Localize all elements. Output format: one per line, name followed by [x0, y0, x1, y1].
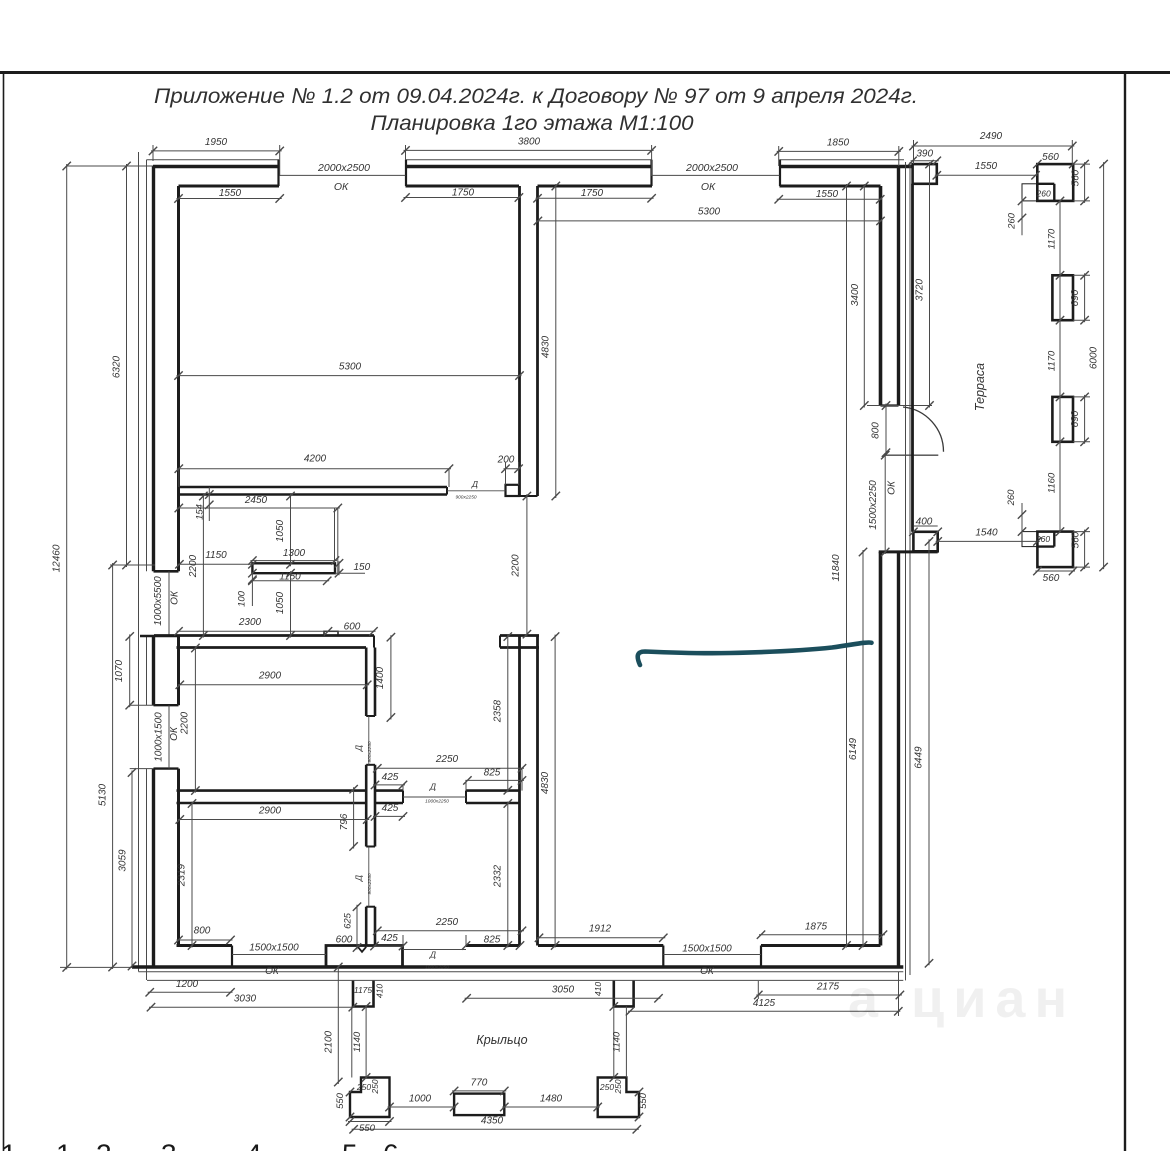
- porch center step: [454, 1094, 504, 1116]
- svg-text:625: 625: [343, 912, 354, 929]
- svg-text:560: 560: [1071, 169, 1082, 186]
- svg-text:3050: 3050: [552, 984, 575, 995]
- dim 560 tr right: [1084, 162, 1086, 203]
- west wall thin contours: [138, 152, 140, 972]
- svg-text:1170: 1170: [1047, 350, 1058, 371]
- svg-text:1550: 1550: [219, 188, 242, 199]
- svg-text:250: 250: [370, 1079, 380, 1094]
- terrace top-right L post: [1037, 164, 1073, 201]
- east door swing arc: [903, 407, 944, 452]
- svg-text:600: 600: [336, 935, 353, 946]
- terrace mid post 2: [1052, 397, 1073, 442]
- svg-text:1170: 1170: [1047, 228, 1058, 249]
- svg-text:6449: 6449: [914, 746, 925, 769]
- dim 425 no1: [373, 784, 405, 786]
- dim 390: [911, 160, 939, 162]
- dim 6320: [126, 164, 128, 567]
- dim 2900 A: [178, 684, 369, 686]
- svg-text:1070: 1070: [114, 659, 125, 682]
- svg-text:1912: 1912: [589, 924, 612, 935]
- svg-text:3720: 3720: [915, 278, 926, 301]
- svg-text:4125: 4125: [753, 998, 776, 1009]
- dim 200: [504, 468, 521, 470]
- svg-text:4200: 4200: [304, 454, 327, 465]
- svg-text:11840: 11840: [831, 554, 842, 582]
- svg-text:1550: 1550: [816, 189, 839, 200]
- svg-text:2450: 2450: [244, 495, 268, 506]
- dim 1750 b: [536, 197, 654, 199]
- west window 1 glass line: [168, 571, 170, 636]
- svg-text:796: 796: [339, 813, 350, 830]
- dim 5300 top: [536, 220, 883, 222]
- terrace mid post 1: [1052, 275, 1073, 320]
- svg-text:1500x2250: 1500x2250: [868, 480, 879, 530]
- hall door stub: [506, 485, 520, 496]
- south wall window caps: [231, 946, 233, 968]
- dim 2300: [177, 630, 376, 632]
- svg-text:Терраса: Терраса: [973, 363, 987, 411]
- svg-text:2332: 2332: [492, 864, 503, 888]
- terrace left edge: [911, 184, 914, 532]
- rooms A/B spine wall: [365, 648, 368, 717]
- svg-text:410: 410: [593, 982, 603, 996]
- dim 1500x2250: [884, 453, 886, 554]
- page frame top line: [0, 71, 1170, 74]
- page frame right line: [1124, 73, 1126, 1151]
- south wall outer face: [132, 965, 903, 968]
- svg-text:Планировка 1го этажа М1:100: Планировка 1го этажа М1:100: [371, 111, 694, 135]
- dim 1550 TR: [777, 198, 883, 200]
- svg-text:1300: 1300: [283, 548, 306, 559]
- svg-text:1140: 1140: [352, 1031, 363, 1052]
- svg-text:ОК: ОК: [170, 590, 181, 605]
- svg-text:425: 425: [381, 933, 398, 944]
- svg-text:ОК: ОК: [334, 181, 349, 193]
- north wall inner face: [179, 185, 280, 188]
- svg-text:5300: 5300: [339, 361, 362, 372]
- dim 690 b: [1084, 395, 1086, 444]
- dim 2200 roomA: [194, 646, 196, 793]
- dim 1200: [148, 991, 233, 993]
- svg-text:250: 250: [613, 1079, 623, 1094]
- svg-text:390: 390: [916, 149, 933, 160]
- svg-text:5300: 5300: [698, 206, 721, 217]
- svg-text:900x2250: 900x2250: [367, 741, 373, 762]
- dim 1150 up: [177, 563, 254, 565]
- dim 5300 room1: [177, 375, 522, 377]
- svg-text:825: 825: [484, 934, 501, 945]
- svg-text:1750: 1750: [452, 187, 475, 198]
- svg-text:4830: 4830: [540, 771, 551, 794]
- dim 1540: [936, 540, 1040, 542]
- corridor door line: [403, 796, 466, 798]
- dim 4350: [352, 1128, 639, 1130]
- south wall inner face segments: [177, 944, 233, 947]
- bottom-right window glass line: [663, 954, 761, 956]
- dim 690 a: [1084, 273, 1086, 322]
- svg-text:2200: 2200: [180, 711, 191, 735]
- dim 4125: [628, 1010, 900, 1012]
- spine door caps: [366, 715, 375, 717]
- terrace corner post 390: [913, 164, 937, 184]
- vestibule step right: [614, 981, 634, 1007]
- svg-text:4350: 4350: [481, 1115, 504, 1126]
- dim 560 br right: [1084, 530, 1086, 570]
- vestibule (tambour): [326, 946, 403, 967]
- svg-text:1: 1: [1, 1139, 17, 1151]
- dim 3050: [465, 997, 661, 999]
- dim 625: [356, 905, 358, 950]
- west wall outer face: [152, 167, 155, 572]
- svg-text:4830: 4830: [541, 335, 552, 358]
- svg-text:1160: 1160: [1047, 472, 1058, 493]
- hallway south wall: [154, 634, 374, 637]
- dim 800 door: [885, 404, 887, 455]
- dim 3720: [929, 162, 931, 407]
- dim 2200 corridor: [526, 494, 528, 636]
- svg-text:560: 560: [1071, 531, 1082, 548]
- svg-text:900x2250: 900x2250: [367, 873, 373, 894]
- dim 100: [251, 573, 253, 606]
- dim 2490: [912, 145, 1075, 147]
- dim 425 no2: [373, 815, 405, 817]
- svg-text:690: 690: [1070, 289, 1081, 306]
- svg-text:1950: 1950: [205, 137, 228, 148]
- svg-text:100: 100: [237, 590, 248, 607]
- dim 4830 low: [554, 635, 556, 948]
- bottom door line: [403, 949, 467, 951]
- east window bottom edge: [879, 550, 938, 553]
- svg-text:260: 260: [1035, 534, 1050, 544]
- dim 3400: [863, 184, 865, 408]
- svg-text:425: 425: [382, 772, 399, 783]
- dim 796: [353, 787, 355, 848]
- dim 2250 mid: [375, 767, 524, 769]
- terrace post connector line: [1059, 201, 1061, 532]
- porch left step block: [350, 1078, 390, 1118]
- west wall inner face: [177, 186, 180, 571]
- svg-text:1050: 1050: [275, 519, 286, 542]
- north wall outer face: [153, 165, 279, 168]
- svg-text:2000x2500: 2000x2500: [685, 162, 738, 174]
- svg-text:2900: 2900: [258, 805, 282, 816]
- svg-text:Крыльцо: Крыльцо: [476, 1033, 527, 1047]
- dim 4830 up: [555, 184, 557, 498]
- svg-text:550: 550: [638, 1092, 649, 1109]
- east door top cap: [881, 404, 899, 406]
- svg-text:900x2250: 900x2250: [455, 495, 476, 501]
- svg-text:600: 600: [344, 621, 361, 632]
- south wall thin contours below: [139, 971, 904, 973]
- svg-text:1550: 1550: [975, 161, 998, 172]
- dim 800 bottom: [177, 939, 233, 941]
- dim 12460: [66, 164, 68, 969]
- svg-text:425: 425: [382, 803, 399, 814]
- svg-text:12460: 12460: [52, 544, 63, 572]
- dim 1400: [390, 635, 392, 719]
- dim 1140 right: [613, 1006, 615, 1077]
- upper central partition: [518, 186, 521, 496]
- dim 1950: [151, 150, 282, 152]
- svg-text:1000x5500: 1000x5500: [153, 576, 164, 626]
- hallway wall notch: [324, 631, 338, 635]
- svg-text:3: 3: [161, 1139, 177, 1151]
- svg-text:2250: 2250: [435, 917, 459, 928]
- watermark cian: [848, 969, 1076, 1029]
- east door sill line: [867, 405, 932, 407]
- terrace post 400: [913, 532, 937, 552]
- svg-text:6000: 6000: [1089, 346, 1100, 369]
- svg-text:800: 800: [194, 925, 211, 936]
- east wall inner face: [879, 186, 883, 406]
- dim 154: [208, 487, 210, 521]
- dim 1000: [388, 1106, 457, 1108]
- east wall outer face: [897, 167, 900, 406]
- dim 2175: [756, 994, 902, 996]
- west window 2 edges: [130, 704, 154, 706]
- svg-text:3059: 3059: [118, 849, 129, 872]
- svg-text:6149: 6149: [848, 737, 859, 760]
- dim 6449: [928, 539, 930, 965]
- svg-text:1500x1500: 1500x1500: [249, 943, 299, 954]
- svg-text:1750: 1750: [581, 188, 604, 199]
- svg-text:Приложение № 1.2 от 09.04.2024: Приложение № 1.2 от 09.04.2024г. к Догов…: [154, 84, 918, 108]
- svg-text:690: 690: [1070, 410, 1081, 427]
- dim 1050 low: [290, 571, 292, 637]
- svg-text:800: 800: [871, 422, 882, 439]
- dim 1875: [759, 934, 885, 936]
- svg-text:6320: 6320: [112, 355, 123, 378]
- svg-text:1175: 1175: [354, 985, 373, 995]
- svg-text:1500x1500: 1500x1500: [682, 944, 732, 955]
- hall door line: [447, 490, 506, 492]
- svg-text:1000x2250: 1000x2250: [425, 799, 449, 805]
- svg-text:3030: 3030: [234, 993, 257, 1004]
- dim 2100: [337, 965, 339, 1084]
- dim ext small rect bottom: [1022, 532, 1037, 547]
- terrace bottom-right L post: [1037, 532, 1073, 568]
- svg-text:Д: Д: [429, 950, 436, 960]
- svg-text:550: 550: [359, 1123, 376, 1134]
- svg-text:Д: Д: [471, 479, 478, 489]
- svg-text:ОК: ОК: [700, 966, 715, 977]
- page frame left line: [3, 73, 5, 1151]
- dim 550 right vertical: [635, 1088, 643, 1096]
- svg-text:2300: 2300: [238, 617, 262, 628]
- dim 560 bottom: [1035, 570, 1075, 572]
- svg-text:2900: 2900: [258, 671, 282, 682]
- room B north wall: [177, 789, 367, 792]
- svg-text:560: 560: [1042, 152, 1059, 163]
- dim 3030: [149, 1006, 355, 1008]
- svg-text:1400: 1400: [375, 666, 386, 689]
- svg-text:1000: 1000: [409, 1093, 432, 1104]
- svg-text:ОК: ОК: [169, 726, 180, 741]
- svg-text:2490: 2490: [979, 131, 1003, 142]
- dim 150: [338, 561, 340, 575]
- bottom-left window glass line: [232, 954, 326, 956]
- dim 260 bottom: [1021, 503, 1023, 534]
- dim 5130: [112, 563, 114, 969]
- svg-text:Д: Д: [429, 782, 436, 792]
- entry arrow chevron: [358, 947, 366, 952]
- lower central partition: [518, 636, 521, 946]
- dim 1750 a: [404, 197, 521, 199]
- dim 2319: [191, 802, 193, 948]
- dim 550 left vertical: [346, 1088, 354, 1096]
- svg-text:2250: 2250: [435, 754, 459, 765]
- east wall thin contours: [905, 162, 907, 980]
- svg-text:Д: Д: [354, 745, 364, 752]
- svg-text:2358: 2358: [492, 699, 503, 723]
- svg-text:1850: 1850: [827, 137, 850, 148]
- svg-text:1000x1500: 1000x1500: [154, 712, 165, 762]
- dim 1070: [129, 634, 131, 707]
- dim 1140 left: [351, 1007, 353, 1078]
- dim 2358: [507, 635, 509, 793]
- dim 2200 hall: [202, 494, 204, 638]
- svg-text:2200: 2200: [188, 554, 199, 578]
- svg-text:ОК: ОК: [887, 480, 898, 495]
- svg-text:410: 410: [375, 984, 385, 998]
- hall north wall (y 487-494.5): [179, 486, 448, 489]
- dim 2900 B: [178, 819, 369, 821]
- dim 6000: [1103, 162, 1105, 569]
- porch right step block: [598, 1078, 639, 1118]
- svg-text:560: 560: [1043, 573, 1060, 584]
- svg-text:1000x2250: 1000x2250: [425, 965, 449, 971]
- svg-text:2175: 2175: [816, 981, 840, 992]
- west window 2 glass line: [168, 705, 170, 768]
- dim 425 no3 line: [374, 945, 405, 947]
- dim 11840: [846, 184, 848, 948]
- svg-text:2319: 2319: [177, 863, 188, 887]
- dim 1300: [250, 560, 337, 562]
- svg-text:а циан: а циан: [848, 969, 1076, 1029]
- dim 1480: [502, 1106, 599, 1108]
- dim 825 mid: [465, 779, 524, 781]
- svg-text:2100: 2100: [324, 1030, 335, 1054]
- svg-text:1140: 1140: [612, 1031, 623, 1052]
- svg-text:1480: 1480: [540, 1093, 563, 1104]
- svg-text:ОК: ОК: [265, 966, 280, 977]
- svg-text:2000x2500: 2000x2500: [317, 162, 370, 174]
- west window 1 edges: [154, 570, 179, 573]
- svg-text:260: 260: [1036, 189, 1051, 199]
- svg-text:5: 5: [342, 1139, 358, 1151]
- dim 825 bottom: [462, 941, 470, 949]
- dim 2250 bottom: [375, 930, 524, 932]
- svg-text:4: 4: [246, 1139, 262, 1151]
- dim 4200: [177, 468, 451, 470]
- svg-text:3800: 3800: [518, 136, 541, 147]
- bottom cut-off glyph fragments: [1, 1139, 399, 1151]
- window 2000x2500 no.1: [280, 174, 406, 176]
- svg-text:3400: 3400: [850, 283, 861, 306]
- dim 2450: [177, 507, 340, 509]
- dim 6149: [862, 550, 864, 948]
- svg-text:1875: 1875: [805, 921, 828, 932]
- svg-text:5130: 5130: [98, 783, 109, 806]
- svg-text:2: 2: [96, 1139, 112, 1151]
- svg-text:1540: 1540: [975, 527, 998, 538]
- dim 260 top: [1021, 199, 1023, 235]
- dim 3059: [131, 771, 133, 969]
- dim 550 left horizontal: [348, 1121, 392, 1123]
- dim 1550 terrace: [935, 174, 1038, 176]
- svg-text:1200: 1200: [176, 979, 199, 990]
- dim ext small rect top: [1022, 184, 1037, 201]
- dim 2332: [507, 802, 509, 948]
- svg-text:550: 550: [335, 1092, 346, 1109]
- dim 1912: [537, 937, 665, 939]
- svg-text:2200: 2200: [511, 554, 522, 578]
- dim 770: [452, 1090, 506, 1092]
- dim 3800: [404, 149, 654, 151]
- svg-text:825: 825: [484, 767, 501, 778]
- spine door lines: [368, 716, 370, 765]
- dim 1550 TL: [177, 198, 282, 200]
- svg-text:1.: 1.: [56, 1139, 79, 1151]
- svg-text:ОК: ОК: [701, 181, 716, 193]
- svg-text:260: 260: [1007, 212, 1018, 230]
- svg-text:770: 770: [471, 1077, 488, 1088]
- dim 1150 low: [250, 580, 329, 582]
- svg-text:6: 6: [383, 1139, 399, 1151]
- dim 1850: [777, 150, 901, 152]
- svg-text:260: 260: [1006, 489, 1017, 507]
- kitchen island: [252, 563, 335, 573]
- north wall thin contour: [147, 159, 280, 161]
- window 2000x2500 no.2: [652, 174, 780, 176]
- svg-text:150: 150: [354, 562, 371, 573]
- north wall end caps: [277, 160, 279, 186]
- dim 1050 up: [290, 494, 292, 566]
- vestibule step left: [353, 981, 374, 1007]
- svg-text:1150: 1150: [205, 550, 227, 561]
- teal marker annotation: [638, 643, 872, 666]
- svg-text:1050: 1050: [275, 591, 286, 614]
- svg-text:Д: Д: [354, 875, 364, 882]
